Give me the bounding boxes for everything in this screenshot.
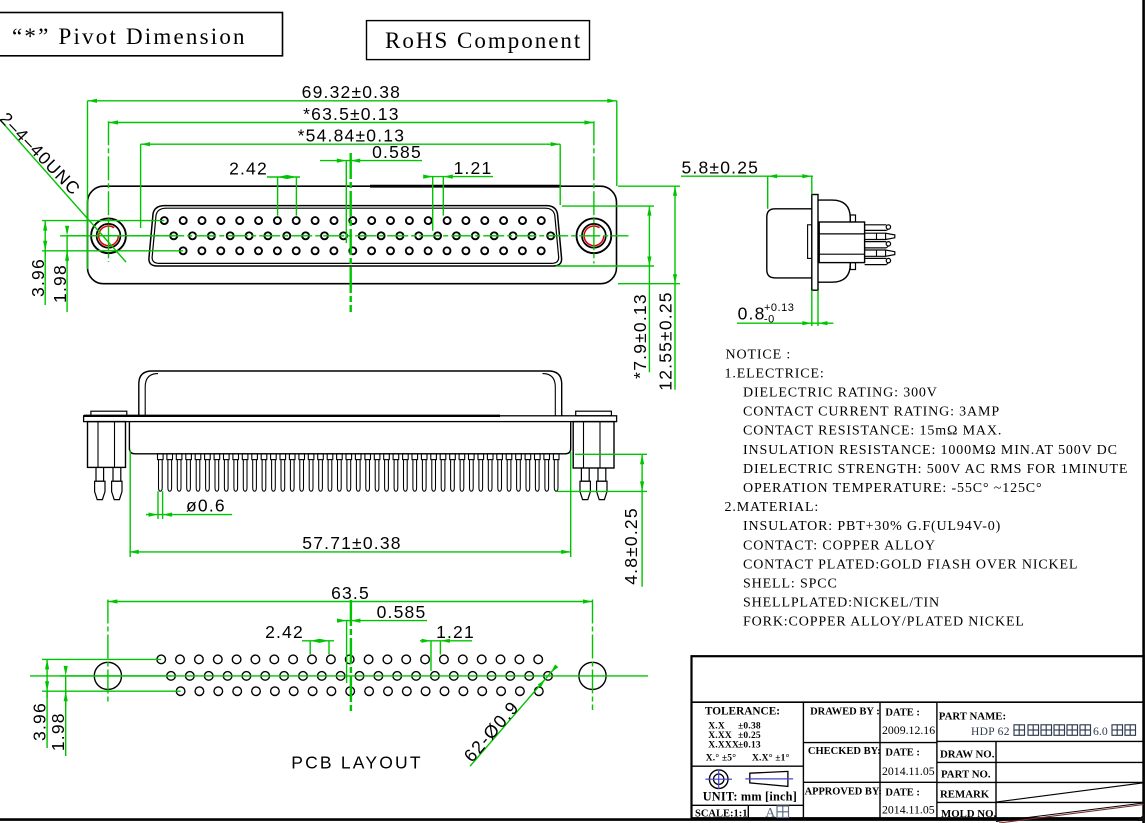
- dimension 2.42 pcb: [265, 622, 334, 654]
- side view: insulator body: [767, 209, 812, 278]
- note box: pivot dimension: [0, 13, 283, 56]
- dimension 2.42 front view: [229, 158, 300, 215]
- svg-text:HDP 62: HDP 62: [971, 726, 1010, 738]
- side view: fork lower: [865, 250, 895, 256]
- svg-text:APPROVED BY:: APPROVED BY:: [805, 787, 882, 798]
- svg-text:X.° ±5°: X.° ±5°: [706, 752, 737, 763]
- svg-text:±0.25: ±0.25: [738, 731, 761, 741]
- svg-text:INSULATION RESISTANCE: 1000MΩ: INSULATION RESISTANCE: 1000MΩ MIN.AT 500…: [743, 443, 1118, 458]
- dimension 69.32+-0.38: [88, 82, 617, 269]
- svg-text:DIELECTRIC RATING: 300V: DIELECTRIC RATING: 300V: [743, 386, 938, 401]
- svg-text:CONTACT PLATED:GOLD FIASH OVER: CONTACT PLATED:GOLD FIASH OVER NICKEL: [743, 557, 1078, 572]
- side view: face insert edge: [808, 225, 812, 259]
- middle view: insulator body: [129, 422, 570, 454]
- svg-text:X.XX: X.XX: [708, 731, 732, 741]
- svg-text:X.XXX: X.XXX: [708, 741, 739, 751]
- front view: left mounting hole vertical centre line: [108, 121, 110, 262]
- dimension 0.585 front view: [320, 142, 422, 243]
- svg-text:CONTACT RESISTANCE: 15mΩ MAX.: CONTACT RESISTANCE: 15mΩ MAX.: [743, 424, 1002, 439]
- middle view: left board-lock fork: [88, 422, 126, 500]
- svg-text:2014.11.05: 2014.11.05: [882, 764, 935, 778]
- tolerance cell text: [705, 706, 790, 764]
- svg-text:SCALE:1:1: SCALE:1:1: [695, 809, 748, 820]
- svg-text:1.98: 1.98: [48, 712, 68, 751]
- svg-text:0.585: 0.585: [377, 602, 427, 622]
- front view: horizontal centre line: [67, 235, 628, 237]
- svg-text:DATE :: DATE :: [885, 708, 920, 719]
- dimension 3.96 front view: [28, 221, 183, 305]
- projection symbol circle: [705, 770, 732, 790]
- notice text block: [725, 347, 1129, 629]
- svg-text:2009.12.16: 2009.12.16: [882, 723, 935, 737]
- svg-text:RoHS Component: RoHS Component: [385, 28, 582, 53]
- svg-text:A: A: [765, 806, 776, 821]
- approved by cell: [805, 787, 935, 817]
- svg-text:ø0.6: ø0.6: [186, 496, 226, 516]
- projection symbol cone: [745, 771, 793, 786]
- svg-text:X.X° ±1°: X.X° ±1°: [752, 752, 790, 763]
- svg-text:PCB LAYOUT: PCB LAYOUT: [291, 753, 423, 773]
- svg-text:INSULATOR: PBT+30% G.F(UL94V-0: INSULATOR: PBT+30% G.F(UL94V-0): [743, 519, 1001, 534]
- svg-text:NOTICE :: NOTICE :: [726, 347, 792, 362]
- svg-text:1.ELECTRICE:: 1.ELECTRICE:: [725, 366, 825, 381]
- svg-text:1.21: 1.21: [436, 622, 475, 642]
- middle view: left fork tab: [91, 411, 127, 416]
- dimension 1.98 pcb: [48, 666, 171, 756]
- svg-text:2.42: 2.42: [229, 158, 268, 178]
- front view: vertical centre line: [350, 153, 352, 312]
- svg-text:±0.38: ±0.38: [738, 722, 761, 732]
- svg-text:3.96: 3.96: [28, 258, 48, 297]
- dimension 63.5 pcb: [108, 583, 593, 604]
- svg-text:FORK:COPPER ALLOY/PLATED NICKE: FORK:COPPER ALLOY/PLATED NICKEL: [743, 615, 1025, 630]
- svg-text:+0.13: +0.13: [764, 302, 794, 314]
- svg-text:X.X: X.X: [708, 722, 725, 732]
- svg-text:6.0: 6.0: [1093, 724, 1108, 738]
- dimension 57.71+-0.38: [129, 450, 570, 557]
- side view: contact pin top: [865, 225, 891, 231]
- middle view: 42 solder pins: [158, 454, 560, 491]
- thread callout 2-4-40UNC leader: [0, 113, 126, 262]
- side view: flange plate: [812, 195, 818, 291]
- front view: left mounting hole with thread: [91, 218, 126, 253]
- svg-text:DRAWED BY :: DRAWED BY :: [810, 707, 880, 718]
- side view: fork upper: [865, 233, 895, 239]
- side view: contact carrier block: [819, 222, 864, 263]
- pcb layout: horizontal centre line: [30, 675, 648, 677]
- front view: right mounting hole with thread: [577, 218, 612, 253]
- middle view: hood (double outline): [139, 371, 562, 416]
- svg-text:*63.5±0.13: *63.5±0.13: [303, 104, 400, 124]
- svg-text:2.42: 2.42: [265, 622, 304, 642]
- svg-text:SHELLPLATED:NICKEL/TIN: SHELLPLATED:NICKEL/TIN: [743, 596, 940, 611]
- svg-text:UNIT: mm [inch]: UNIT: mm [inch]: [703, 789, 797, 803]
- svg-text:DIELECTRIC STRENGTH: 500V AC R: DIELECTRIC STRENGTH: 500V AC RMS FOR 1MI…: [743, 462, 1128, 477]
- pcb layout: left hole centre line: [107, 600, 109, 703]
- dimension 0.8 +0.13/-0: [737, 290, 833, 326]
- svg-text:REMARK: REMARK: [940, 789, 990, 801]
- front view: 62 contact holes: [161, 217, 554, 254]
- mold no cell: [941, 803, 1144, 823]
- svg-text:TOLERANCE:: TOLERANCE:: [705, 706, 780, 718]
- front view: connector shell outline: [88, 186, 617, 284]
- pcb layout: right mounting hole: [579, 662, 606, 689]
- part name cell: [939, 710, 1136, 738]
- dimension 1.21 pcb: [420, 622, 475, 671]
- dimension 3.96 pcb: [30, 659, 181, 748]
- svg-text:3.96: 3.96: [30, 702, 50, 741]
- pcb layout: 62 holes: [157, 655, 552, 695]
- svg-text:PART NAME:: PART NAME:: [939, 710, 1006, 722]
- note box: RoHS component: [367, 21, 590, 60]
- revision A text: [765, 806, 788, 821]
- svg-text:DATE :: DATE :: [885, 748, 920, 759]
- svg-text:63.5: 63.5: [331, 583, 370, 603]
- page corner fold mark: [1138, 813, 1145, 822]
- pcb layout: vertical centre line: [350, 600, 352, 712]
- callout 62-diameter 0.9: [460, 664, 558, 766]
- middle view: flange plate: [84, 416, 617, 422]
- svg-text:69.32±0.38: 69.32±0.38: [302, 82, 401, 102]
- dimension 12.55+-0.25: [618, 186, 680, 391]
- dimension 4.8+-0.25: [557, 454, 647, 586]
- title block grid lines: [692, 702, 1144, 818]
- dimension *63.5+-0.13: [109, 104, 594, 125]
- pcb layout: left mounting hole: [94, 662, 121, 689]
- dimension 5.8+-0.25: [681, 158, 813, 209]
- svg-text:SHELL: SPCC: SHELL: SPCC: [743, 577, 838, 592]
- svg-text:12.55±0.25: 12.55±0.25: [656, 291, 676, 390]
- dimension *7.9+-0.13: [556, 206, 654, 379]
- svg-text:2.MATERIAL:: 2.MATERIAL:: [725, 500, 820, 515]
- dimension 1.98 front view: [50, 226, 174, 312]
- svg-text:4.8±0.25: 4.8±0.25: [621, 507, 641, 585]
- dimension 0.585 pcb: [337, 602, 427, 683]
- front view: right mounting hole vertical centre line: [593, 121, 595, 263]
- svg-text:MOLD NO.: MOLD NO.: [941, 808, 996, 820]
- drawed by cell: [810, 707, 935, 738]
- svg-text:0.8: 0.8: [738, 304, 766, 324]
- front view: D-face insert (double outline): [149, 206, 562, 266]
- svg-text:*7.9±0.13: *7.9±0.13: [630, 293, 650, 379]
- svg-text:±0.13: ±0.13: [738, 741, 761, 751]
- title block frame: [692, 656, 1144, 818]
- svg-text:CONTACT CURRENT RATING: 3AMP: CONTACT CURRENT RATING: 3AMP: [743, 405, 1000, 420]
- side view: rear shell: [818, 200, 856, 282]
- dimension diameter 0.6 pin: [146, 491, 232, 519]
- middle view: right board-lock fork: [573, 422, 614, 500]
- svg-text:DRAW NO.: DRAW NO.: [940, 749, 995, 761]
- svg-text:1.98: 1.98: [50, 264, 70, 303]
- svg-text:1.21: 1.21: [454, 158, 493, 178]
- svg-text:OPERATION TEMPERATURE: -55C° ~: OPERATION TEMPERATURE: -55C° ~125C°: [743, 481, 1042, 496]
- dimension 1.21 front view: [423, 158, 493, 231]
- svg-text:CHECKED BY:: CHECKED BY:: [808, 746, 881, 757]
- side view: contact pin bottom: [865, 258, 891, 264]
- svg-text:“*” Pivot Dimension: “*” Pivot Dimension: [12, 24, 247, 49]
- dimension *54.84+-0.13: [141, 126, 561, 228]
- svg-text:PART NO.: PART NO.: [941, 769, 991, 781]
- svg-text:CONTACT: COPPER ALLOY: CONTACT: COPPER ALLOY: [743, 538, 936, 553]
- remark cell: [940, 783, 1144, 802]
- pcb layout: right hole centre line: [592, 600, 594, 711]
- svg-text:DATE :: DATE :: [885, 788, 920, 799]
- svg-text:0.585: 0.585: [372, 142, 422, 162]
- svg-text:5.8±0.25: 5.8±0.25: [682, 158, 760, 178]
- middle view: right fork tab: [576, 411, 612, 416]
- checked by cell: [808, 746, 935, 778]
- side view: contact pin middle: [865, 242, 891, 248]
- svg-text:2014.11.05: 2014.11.05: [882, 803, 935, 817]
- svg-text:57.71±0.38: 57.71±0.38: [302, 533, 401, 553]
